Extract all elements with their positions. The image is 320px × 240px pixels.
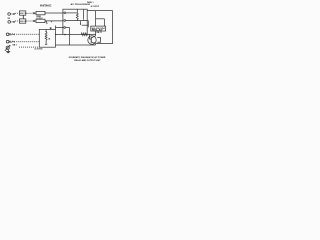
svg-text:MAINTENANCE: MAINTENANCE <box>40 5 52 8</box>
svg-text:LN 2: LN 2 <box>20 21 27 23</box>
svg-text:AC SURGE: AC SURGE <box>35 48 44 51</box>
svg-text:AC OUTPUT: AC OUTPUT <box>91 5 100 8</box>
svg-text:SCHEMATIC DIAGRAM OF AC POWER: SCHEMATIC DIAGRAM OF AC POWER <box>69 56 106 59</box>
svg-text:RELAY AND OUTPUT UNIT: RELAY AND OUTPUT UNIT <box>74 59 101 62</box>
svg-text:PANEL 1: PANEL 1 <box>87 1 94 4</box>
svg-text:NB 1: NB 1 <box>13 44 18 46</box>
svg-text:LN 1: LN 1 <box>20 13 27 15</box>
